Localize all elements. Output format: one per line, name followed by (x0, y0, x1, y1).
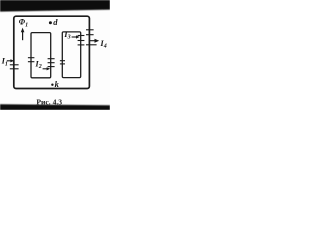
right leg right winding ticks (86, 29, 94, 31)
node k dot (51, 84, 53, 86)
middle leg right winding ticks (60, 60, 65, 62)
left leg inner winding ticks (28, 57, 35, 59)
left window (31, 33, 51, 78)
paper background (0, 0, 110, 110)
bottom scan band (0, 104, 110, 110)
svg-text:k: k (55, 79, 60, 89)
current I2 arrow (43, 68, 48, 70)
core outer outline (14, 16, 90, 88)
current I3 arrow (72, 36, 77, 38)
node d dot (49, 21, 52, 24)
right window (62, 32, 80, 78)
svg-text:d: d (53, 17, 58, 27)
left leg outer winding ticks (10, 64, 19, 66)
right leg left winding ticks (78, 35, 85, 37)
top scan band (0, 0, 110, 12)
current I1 arrow (7, 60, 12, 62)
middle leg left winding ticks (48, 58, 55, 60)
current I4 arrow (90, 40, 96, 42)
flux arrow (up) (22, 31, 24, 41)
svg-text:Рис. 4.3: Рис. 4.3 (36, 98, 62, 107)
